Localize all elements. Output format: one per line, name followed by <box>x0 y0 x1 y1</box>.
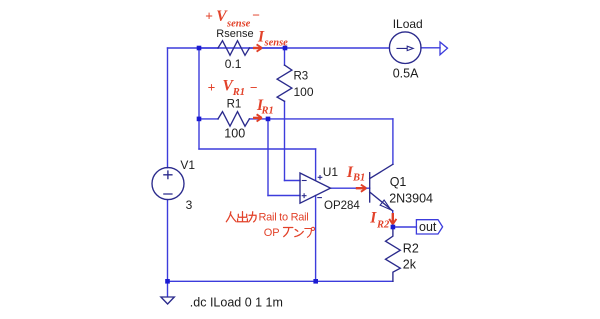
svg-text:3: 3 <box>186 198 193 212</box>
svg-text:R1: R1 <box>232 87 245 98</box>
svg-text:0.5A: 0.5A <box>393 67 419 81</box>
svg-text:+: + <box>207 80 215 95</box>
svg-text:R1: R1 <box>227 99 242 111</box>
svg-text:out: out <box>419 220 437 234</box>
svg-text:U1: U1 <box>323 165 339 179</box>
svg-text:OP: OP <box>264 227 280 239</box>
svg-text:100: 100 <box>224 126 245 140</box>
svg-text:sense: sense <box>226 18 251 29</box>
svg-text:R2: R2 <box>403 241 419 255</box>
svg-text:R1: R1 <box>261 106 274 117</box>
svg-text:Rail to Rail: Rail to Rail <box>259 211 309 223</box>
svg-text:B1: B1 <box>352 173 365 184</box>
svg-text:2k: 2k <box>403 258 417 272</box>
svg-text:sense: sense <box>264 38 289 49</box>
svg-text:R3: R3 <box>294 71 309 83</box>
svg-text:100: 100 <box>294 85 314 99</box>
svg-text:+: + <box>205 8 213 23</box>
svg-text:OP284: OP284 <box>324 200 360 212</box>
svg-text:Q1: Q1 <box>390 175 407 189</box>
svg-text:2N3904: 2N3904 <box>389 192 433 206</box>
svg-text:0.1: 0.1 <box>225 57 242 71</box>
svg-text:−: − <box>252 8 260 23</box>
svg-text:−: − <box>250 80 258 95</box>
svg-text:Rsense: Rsense <box>216 28 253 40</box>
svg-text:ILoad: ILoad <box>393 17 423 31</box>
svg-text:R2: R2 <box>376 220 390 231</box>
svg-text:.dc ILoad 0 1 1m: .dc ILoad 0 1 1m <box>190 296 283 310</box>
svg-text:V1: V1 <box>180 158 195 172</box>
